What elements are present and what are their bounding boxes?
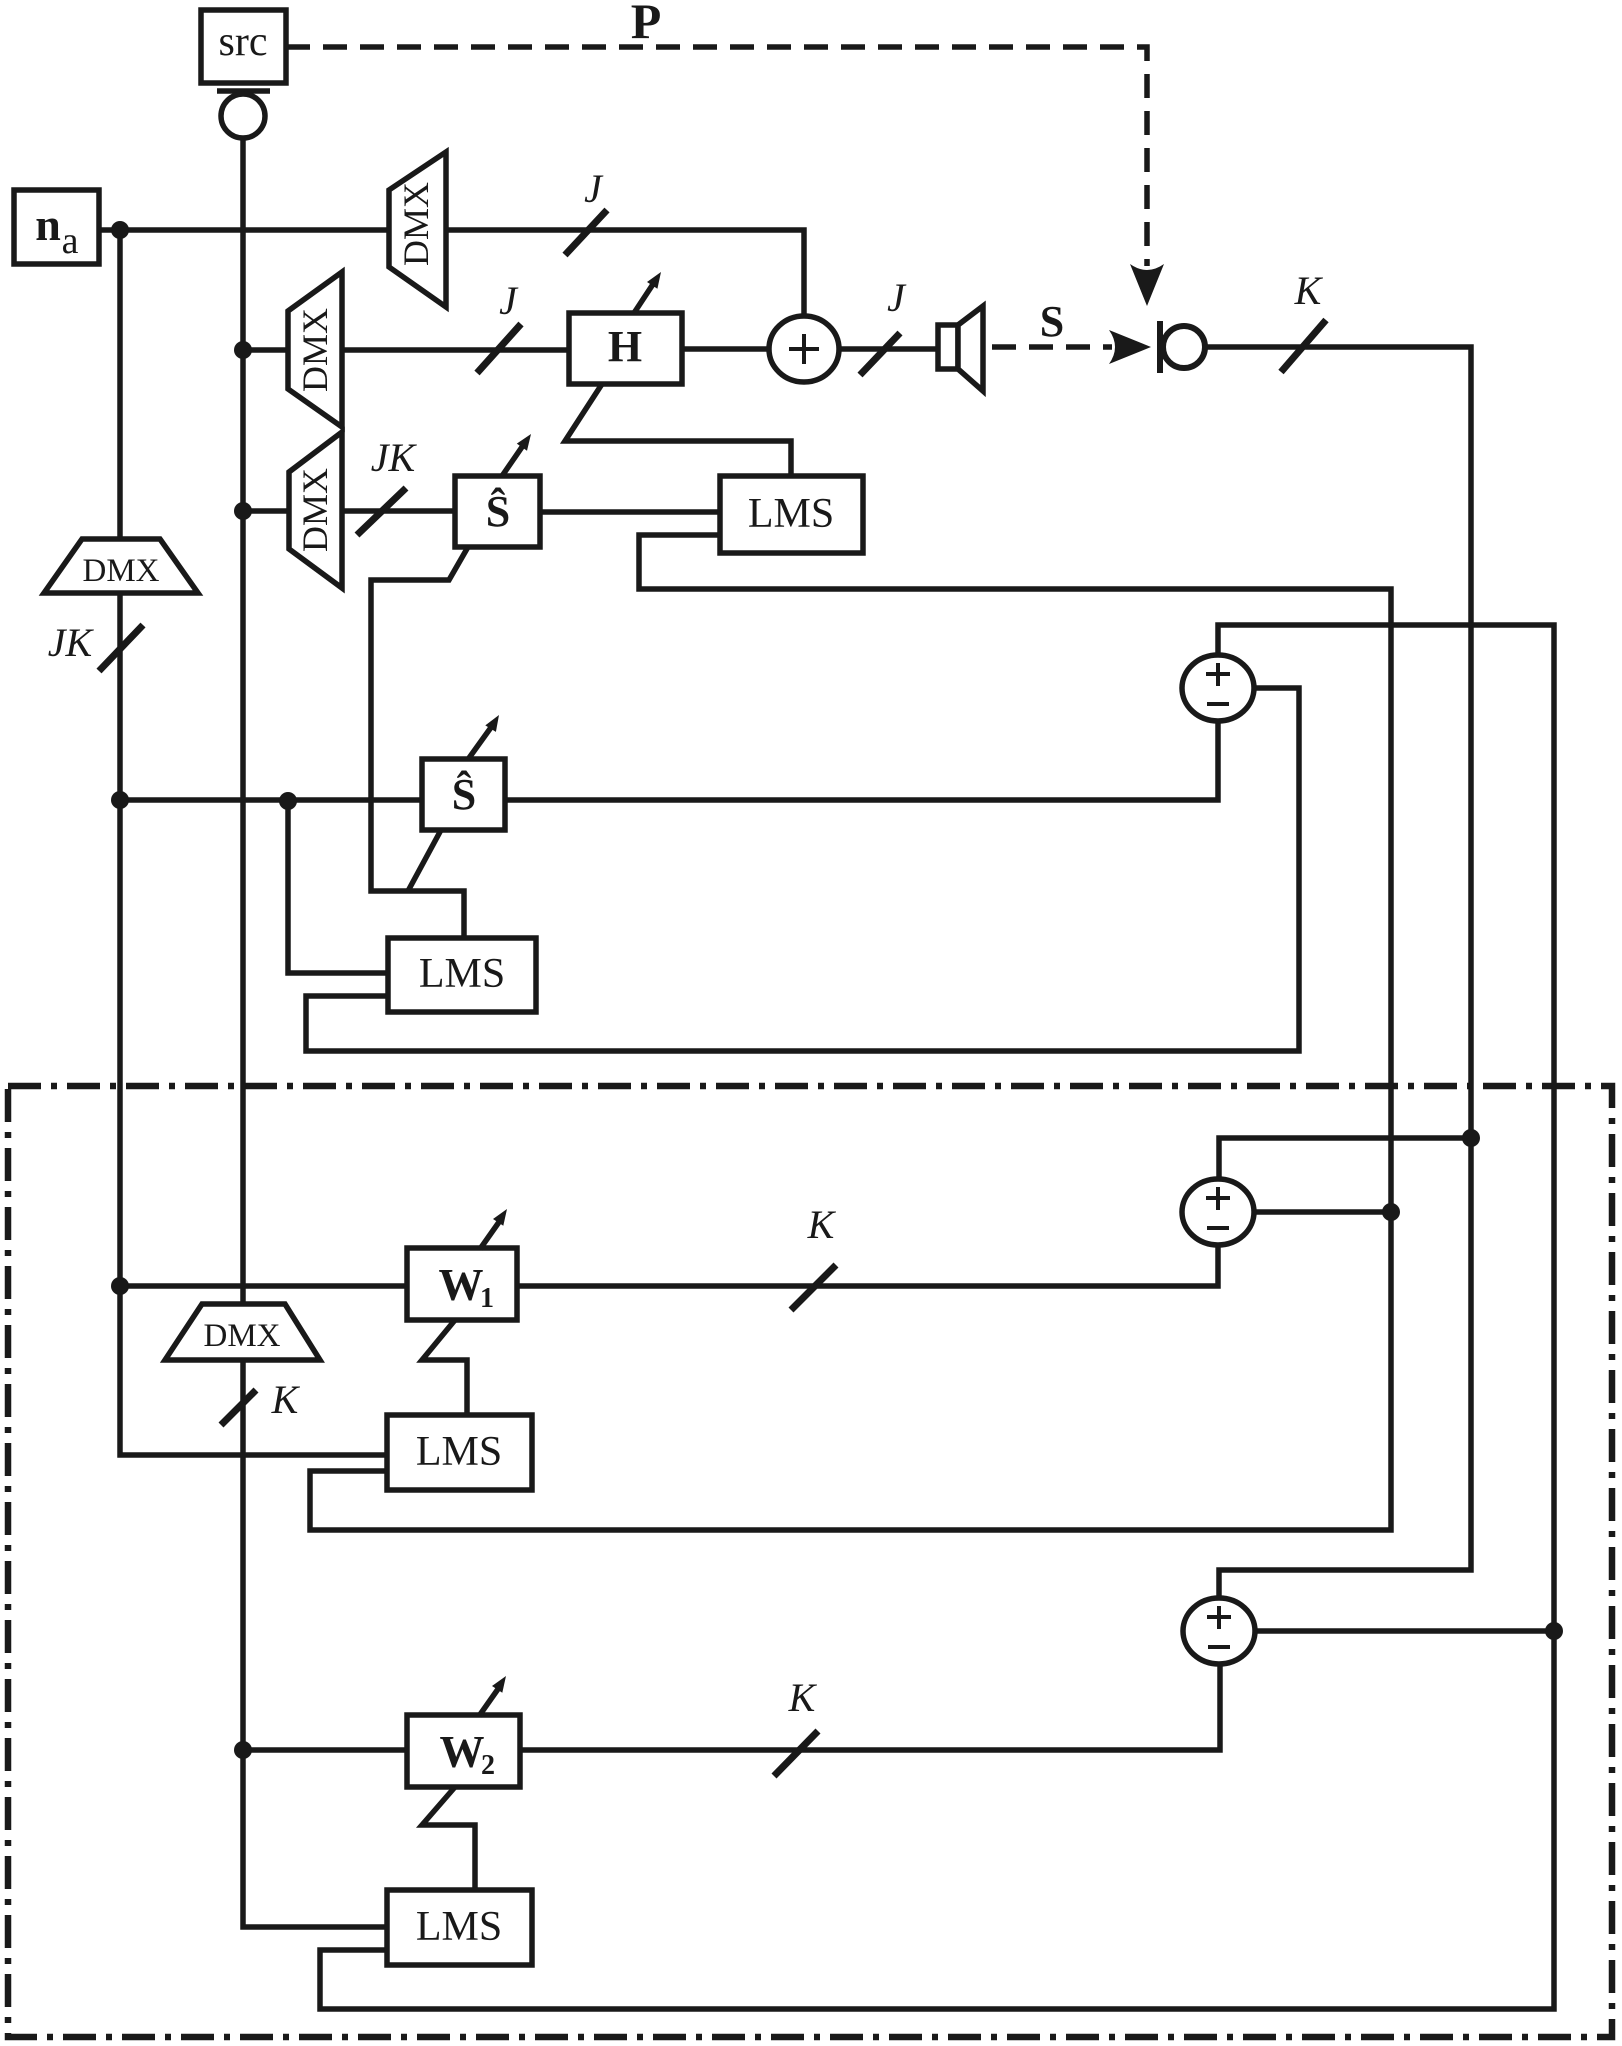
svg-text:K: K: [1294, 268, 1324, 313]
adjust arrow of S-hat-1: [502, 442, 525, 476]
svg-text:H: H: [608, 322, 642, 371]
wire: source vertical bus from src loudspeaker down to LMS4 input: [243, 138, 387, 1927]
svg-text:DMX: DMX: [82, 553, 159, 589]
DMX demux 5 (source bus): [165, 1304, 320, 1360]
summer-0 plus circle: [769, 316, 839, 382]
adjust arrow of W2: [479, 1686, 501, 1717]
adaptive controller dash-dot boundary box: [8, 1086, 1612, 2037]
junction dot summer-2 output: [1382, 1203, 1400, 1221]
wire: LMS3 output zigzag to W1: [422, 1320, 467, 1415]
svg-text:J: J: [584, 166, 604, 211]
source loudspeaker symbol under src: [217, 88, 270, 94]
svg-text:K: K: [788, 1675, 818, 1720]
wire: LMS4 output zigzag to W2: [422, 1787, 475, 1890]
junction dot S-hat-2 input left: [111, 791, 129, 809]
wire: W1 output to summer-2 bottom: [517, 1245, 1218, 1286]
svg-text:DMX: DMX: [295, 468, 335, 552]
junction dot S-hat-1 bus: [234, 502, 252, 520]
svg-text:n: n: [35, 199, 61, 250]
wire: H output to summer-0: [682, 346, 771, 352]
svg-text:P: P: [631, 0, 662, 49]
error microphone symbol: [1157, 321, 1163, 373]
junction dot LMS2 branch: [279, 792, 297, 810]
adjust arrow of W1: [480, 1219, 502, 1250]
bus slash K on source bus: [221, 1390, 256, 1425]
DMX demux 3 (S-hat-1 bus): [289, 432, 342, 588]
svg-text:W: W: [439, 1260, 484, 1310]
junction dot mic bus branch: [1462, 1129, 1480, 1147]
wire: LMS2 output up to S-hat adjust rail: [371, 547, 468, 940]
wire: LMS2 upper input from junction on S-hat-2 line: [288, 801, 388, 973]
wire: primary path P dashed from src to error mic: [286, 47, 1147, 266]
wire: S-hat-1 output to LMS1: [540, 509, 720, 515]
junction dot W2 branch: [234, 1741, 252, 1759]
bus slash J on n_a bus: [565, 210, 607, 255]
svg-text:K: K: [271, 1377, 301, 1422]
svg-text:1: 1: [480, 1283, 494, 1314]
bus slash K on W2 output: [774, 1731, 818, 1776]
bus slash K on W1 output: [791, 1265, 836, 1310]
summer-2 plus-minus circle: [1182, 1179, 1254, 1245]
svg-text:Ŝ: Ŝ: [452, 770, 476, 819]
junction dot reference bus: [234, 341, 252, 359]
wire: summer-1 top input from feedback rail: [320, 625, 1554, 2009]
svg-text:J: J: [887, 275, 907, 320]
LMS1 box: [720, 476, 863, 553]
svg-text:LMS: LMS: [416, 1904, 502, 1950]
svg-text:JK: JK: [371, 435, 418, 480]
bus slash JK on left bus: [99, 625, 143, 671]
secondary path estimate S-hat-1: [455, 476, 540, 547]
svg-text:DMX: DMX: [295, 308, 335, 392]
DMX demux 2 (reference bus): [288, 272, 342, 427]
loudspeaker symbol: [938, 325, 958, 369]
wire: DMX bus y=520 to S-hat-1: [243, 508, 455, 514]
wire: S-hat-2 output to summer-1 bottom: [505, 721, 1218, 800]
LMS2 box: [388, 938, 536, 1012]
wire: branch from mic bus to summer-2 top: [1219, 1138, 1471, 1181]
junction dot W1 branch: [111, 1277, 129, 1295]
DMX demux 1 (on n_a bus): [389, 152, 446, 307]
src box: [201, 10, 286, 83]
svg-text:a: a: [62, 220, 79, 262]
bus slash J before H: [477, 324, 521, 373]
LMS3 box: [387, 1415, 532, 1490]
wire: S-hat-2 input line y=800: [120, 797, 422, 803]
summer-1 plus-minus circle: [1182, 655, 1254, 721]
wire: acoustic dashed S path: [992, 344, 1112, 350]
wire: error feed to LMS1 lower input, down right side x=1391 to LMS3: [310, 535, 1391, 1530]
summer-3 plus-minus circle: [1183, 1598, 1255, 1664]
svg-text:W: W: [440, 1727, 485, 1777]
noise box n_a: [14, 190, 99, 264]
wire: error mic K bus down to summer-3 top: [1206, 347, 1471, 1600]
wire: branch diagonal to S-hat-2 adjust: [408, 830, 441, 891]
wire: W1 input from DMX JK bus: [120, 230, 387, 1455]
adjust arrow of H: [634, 280, 656, 313]
wire: W1 input branch: [120, 1283, 407, 1289]
svg-text:LMS: LMS: [416, 1429, 502, 1475]
svg-text:J: J: [499, 278, 519, 323]
secondary path estimate S-hat-2: [422, 759, 505, 830]
wire: summer-2 output to error rail: [1251, 1209, 1391, 1215]
adaptive filter W2: [407, 1715, 520, 1787]
DMX demux 4 (left vertical bus): [44, 539, 198, 593]
adaptive filter H: [569, 313, 682, 384]
svg-text:JK: JK: [48, 620, 95, 665]
svg-text:2: 2: [481, 1750, 495, 1781]
adjust arrow of S-hat-2: [469, 724, 494, 759]
svg-text:LMS: LMS: [419, 951, 505, 997]
wire: summer-1 output down and to LMS2 lower input: [306, 688, 1299, 1051]
bus slash K after mic: [1281, 320, 1326, 372]
svg-text:DMX: DMX: [203, 1318, 280, 1354]
svg-text:DMX: DMX: [396, 182, 436, 266]
svg-text:K: K: [807, 1202, 837, 1247]
arrowhead of P path: [1130, 264, 1164, 306]
arrowhead of S path: [1109, 330, 1151, 364]
junction dot n_a branch: [111, 221, 129, 239]
wire: LMS1 output up and into H adjust diagonal: [565, 384, 791, 476]
wire: summer-0 output to loudspeaker: [837, 346, 938, 352]
wire: W2 output to summer-3 bottom: [520, 1664, 1220, 1750]
wire: W2 input branch from source bus: [243, 1747, 407, 1753]
wire: reference bus y=350 to H: [243, 347, 569, 353]
svg-text:src: src: [219, 19, 268, 65]
svg-text:LMS: LMS: [748, 491, 834, 537]
wire: summer-3 output to feedback rail: [1252, 1628, 1554, 1634]
wire: n_a output bus to summer-0 top: [99, 230, 804, 316]
svg-text:Ŝ: Ŝ: [486, 487, 510, 536]
junction dot summer-3 output: [1545, 1622, 1563, 1640]
adaptive filter W1: [407, 1248, 517, 1320]
svg-text:S: S: [1040, 297, 1064, 346]
bus slash JK before S-hat-1: [357, 488, 406, 535]
LMS4 box: [387, 1890, 532, 1965]
bus slash J after summer-0: [860, 333, 900, 375]
